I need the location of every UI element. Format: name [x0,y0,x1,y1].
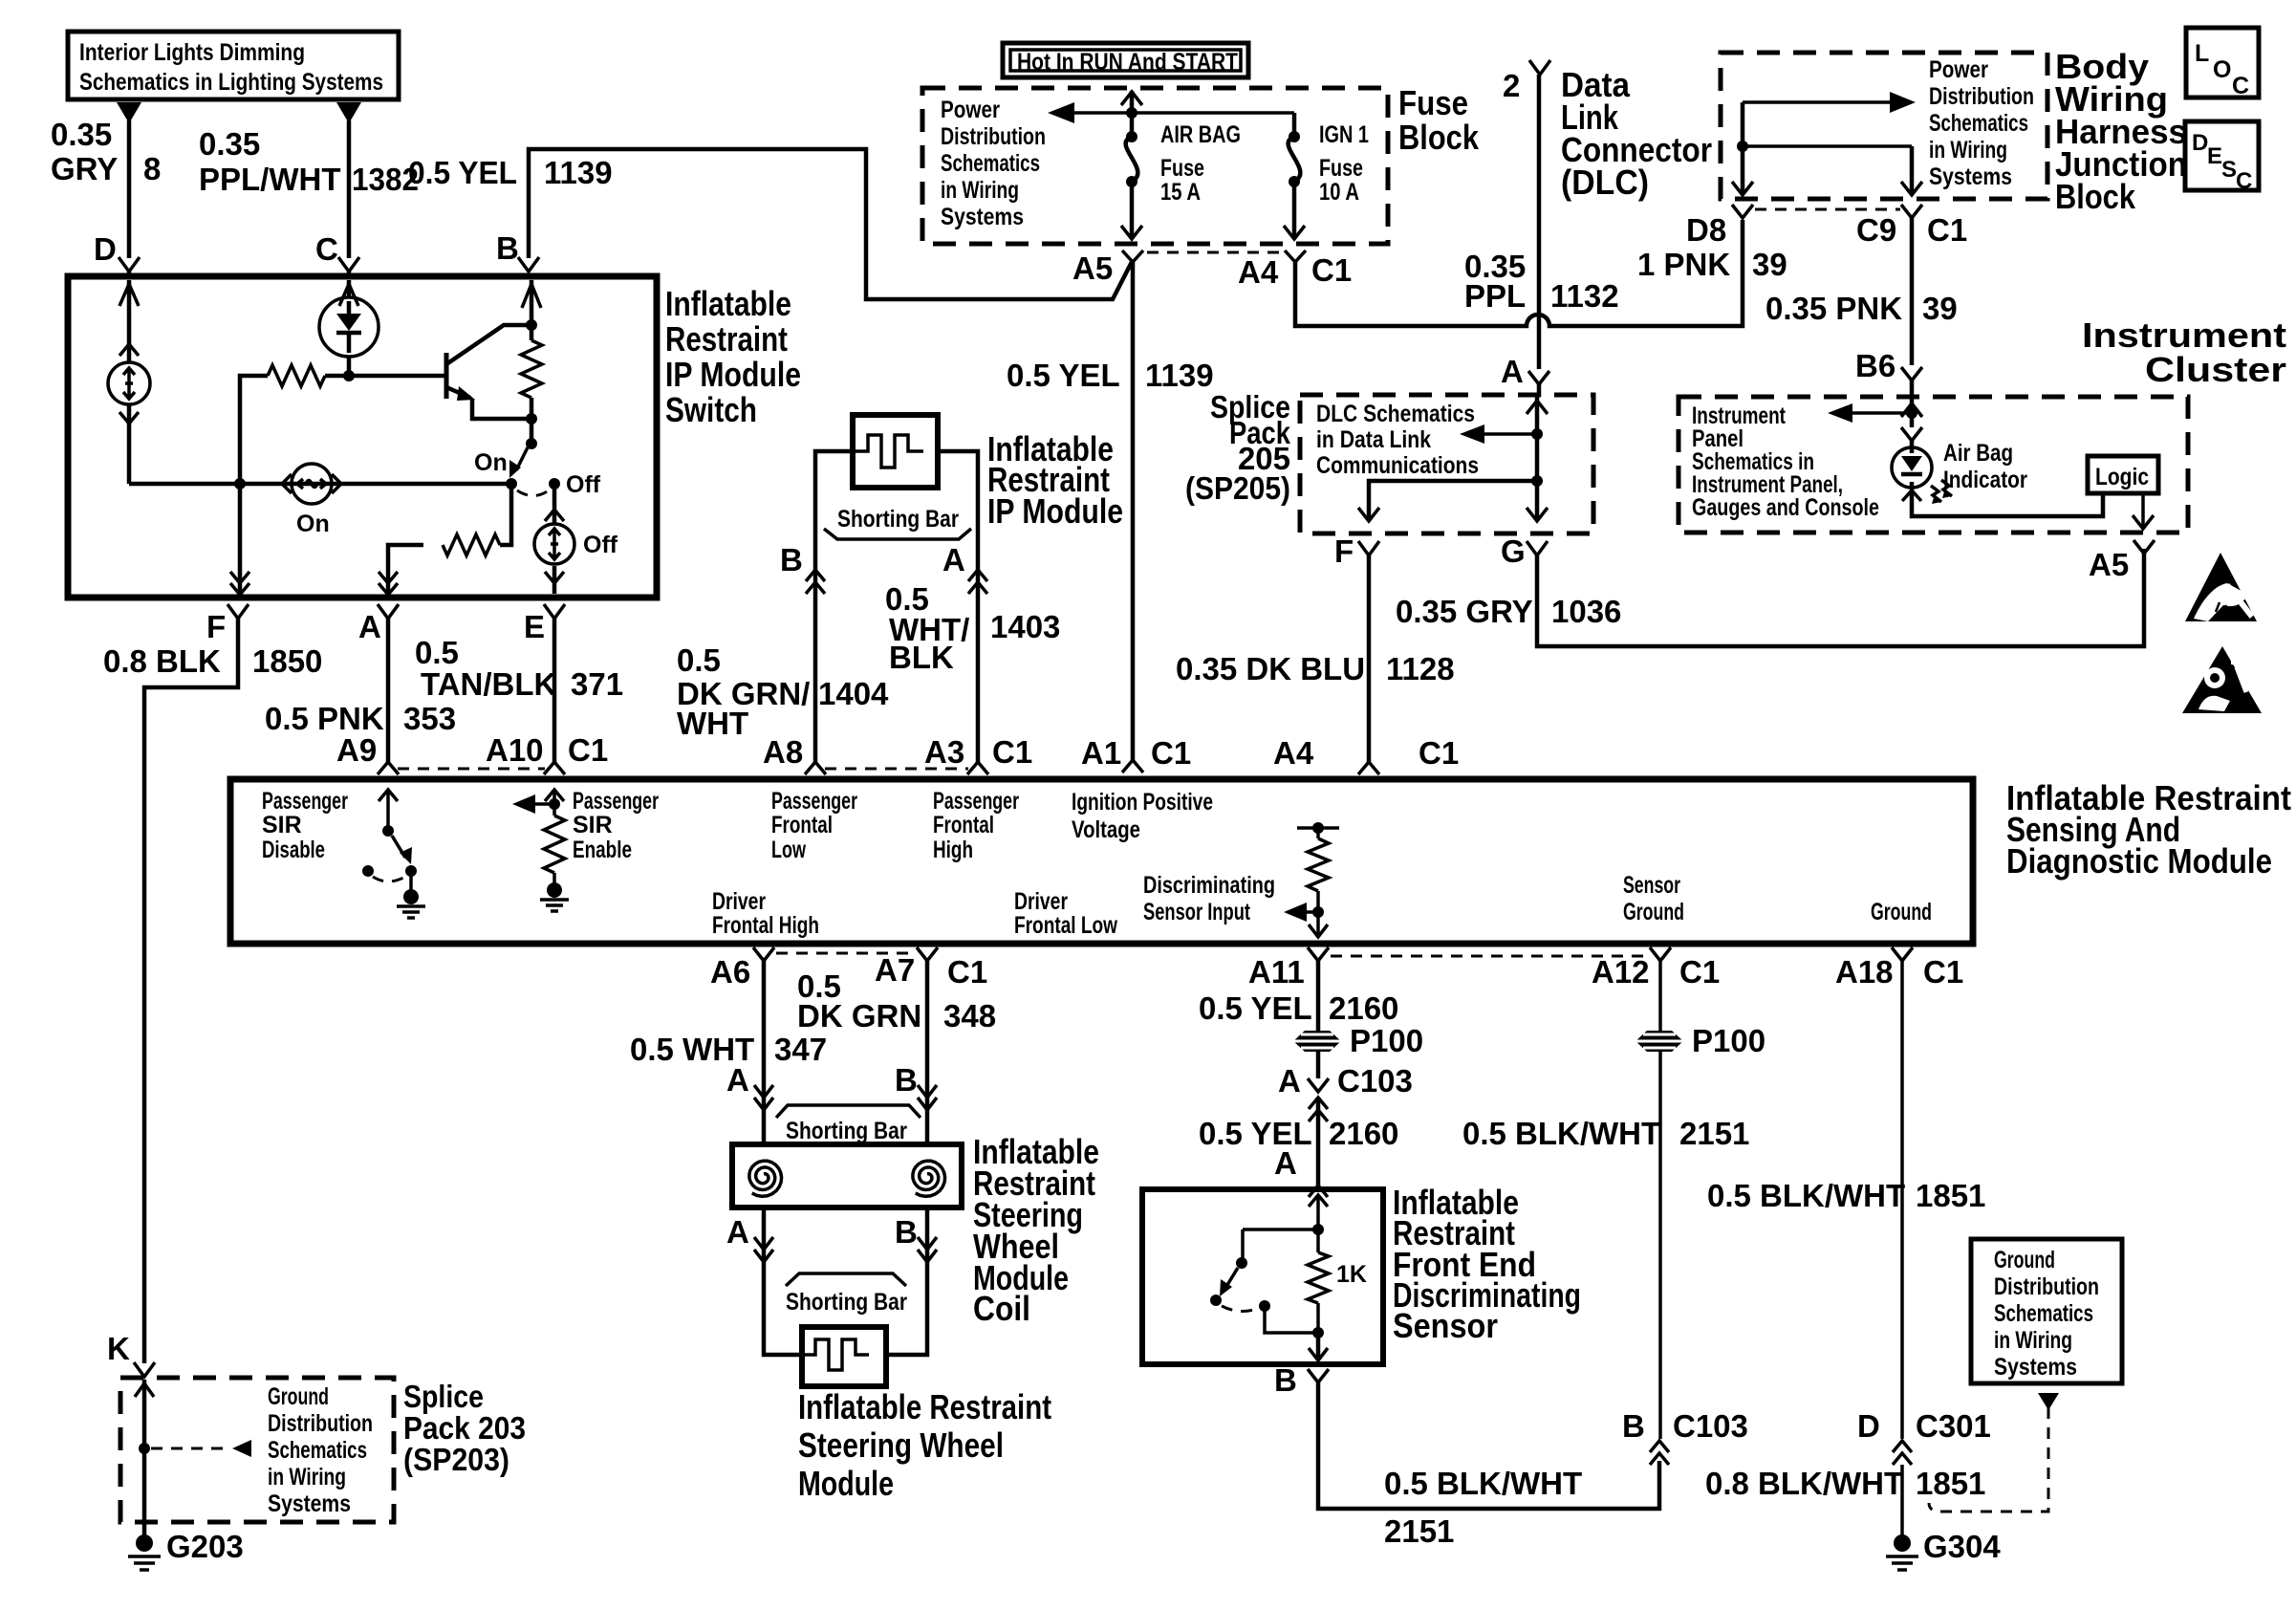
svg-text:C301: C301 [1916,1408,1991,1444]
node: Discriminating Sensor Input resistor [1143,822,1339,937]
svg-text:A7: A7 [875,952,915,988]
Fuse Block dashed box [922,83,1480,244]
node: Passenger SIR Disable switch [262,788,425,918]
reference box: Interior Lights Dimming Schematics in Lighting Systems [68,32,399,99]
svg-text:Power: Power [941,97,1000,123]
Inflatable Restraint Steering Wheel Module Coil box [732,1132,1099,1328]
svg-text:B: B [895,1214,918,1250]
sensor internals: switch and 1K resistor [1210,1195,1367,1360]
svg-text:SIR: SIR [573,812,613,838]
wire: switch common down to F terminal [230,484,249,595]
svg-text:0.8 BLK/WHT: 0.8 BLK/WHT [1705,1466,1903,1501]
svg-text:Inflatable: Inflatable [665,284,791,323]
svg-text:Hot In RUN And START: Hot In RUN And START [1017,49,1238,76]
svg-text:Pack 203: Pack 203 [403,1410,526,1446]
svg-text:Inflatable Restraint: Inflatable Restraint [798,1387,1051,1426]
Off contact and dashed throw [517,471,601,498]
ESD warning triangle (handling) [2185,553,2257,621]
svg-text:Shorting Bar: Shorting Bar [837,506,959,533]
node: Sensor Ground [1623,872,1684,925]
svg-text:Schematics: Schematics [1929,110,2028,137]
svg-text:1851: 1851 [1916,1178,1985,1213]
svg-text:15 A: 15 A [1160,179,1201,206]
svg-text:PPL: PPL [1464,278,1526,314]
svg-text:1851: 1851 [1916,1466,1985,1501]
wire: horizontal run to On contact [129,478,511,490]
dashed connector line A8-A3 [825,768,968,771]
svg-text:C1: C1 [1311,252,1352,288]
wire: IP module A lead to SDM A3 (0.5 WHT/BLK 1403) [885,451,1060,774]
svg-text:Ground: Ground [1623,899,1684,925]
svg-text:Low: Low [771,837,806,863]
svg-text:Distribution: Distribution [268,1410,373,1437]
svg-text:0.35: 0.35 [199,126,260,162]
LOC index box [2186,28,2259,99]
svg-text:A3: A3 [924,734,964,770]
svg-text:1K: 1K [1336,1261,1367,1288]
svg-text:Diagnostic Module: Diagnostic Module [2006,841,2272,881]
SIR warning triangle [2182,646,2262,713]
svg-text:Frontal Low: Frontal Low [1014,912,1117,939]
air bag indicator lamp [1892,440,2103,516]
svg-text:1403: 1403 [990,609,1060,644]
svg-text:DK GRN: DK GRN [797,998,921,1033]
svg-text:Interior Lights Dimming: Interior Lights Dimming [79,39,305,66]
svg-text:C1: C1 [1927,212,1967,248]
connector A6 below SDM [710,947,916,990]
svg-text:A: A [726,1214,749,1250]
wire: splice 205 internals [1358,397,1548,521]
svg-text:C1: C1 [1419,735,1459,771]
svg-text:Driver: Driver [712,888,766,915]
svg-text:D: D [94,231,117,267]
shorting bar (IP module) [824,506,971,539]
svg-text:C: C [2236,168,2252,194]
wire C (0.35 PPL/WHT 1382) from interior lights box to IP module switch [199,102,419,276]
svg-text:C103: C103 [1673,1408,1748,1444]
svg-text:C103: C103 [1337,1063,1413,1099]
Body Wiring Harness Junction Block dashed box [1721,47,2187,216]
connector E below switch (0.5 TAN/BLK 371) [415,604,623,774]
svg-text:Frontal: Frontal [933,812,994,838]
coil spiral A [749,1161,782,1196]
svg-text:Coil: Coil [973,1289,1030,1328]
dimmer symbol (circle) on D branch [108,362,150,484]
svg-text:Ground: Ground [268,1383,329,1410]
wire: 0.35 PPL 1132 from DLC down to splice pack 205 [1464,75,1619,397]
svg-text:Enable: Enable [573,837,632,863]
svg-text:39: 39 [1752,247,1787,282]
switch lever (On position) [474,419,537,490]
svg-text:A10: A10 [486,732,544,768]
svg-text:F: F [1334,533,1354,569]
svg-text:A: A [1278,1063,1301,1099]
shorting bar (coil upper) [776,1105,921,1144]
connector A5 of fuse block C1 [1072,250,1281,286]
svg-text:Off: Off [583,532,618,558]
svg-text:0.5 YEL: 0.5 YEL [408,155,517,190]
svg-text:0.35 DK BLU: 0.35 DK BLU [1176,651,1365,686]
grommet P100 (A11 wire) [1293,1023,1423,1058]
wire: ignition feed 0.5 YEL 1139 down to SDM A1 [1007,262,1214,772]
svg-text:C1: C1 [947,954,987,990]
svg-text:High: High [933,837,973,863]
svg-text:1128: 1128 [1386,651,1455,686]
reference box: Hot In RUN And START [1003,43,1248,77]
svg-text:Disable: Disable [262,837,325,863]
wire: junction block internals D8 feed [1732,92,1922,195]
svg-text:E: E [2207,143,2222,169]
svg-text:A: A [1274,1145,1297,1181]
svg-text:S: S [2221,157,2237,183]
svg-text:D: D [2192,130,2208,156]
svg-text:Ignition Positive: Ignition Positive [1072,789,1213,816]
svg-text:0.35 GRY: 0.35 GRY [1396,594,1533,629]
svg-text:348: 348 [943,998,996,1033]
connector A11 below SDM [1248,947,1648,990]
svg-text:Distribution: Distribution [1929,83,2034,110]
Inflatable Restraint Front End Discriminating Sensor box [1142,1183,1581,1364]
svg-text:E: E [524,609,545,644]
svg-text:A8: A8 [763,734,803,770]
Inflatable Restraint Steering Wheel Module box [798,1327,1051,1503]
node: Driver Frontal Low [1014,888,1117,939]
svg-text:Sensor: Sensor [1623,872,1680,899]
svg-text:A5: A5 [2089,547,2129,582]
wire: D branch inside switch [119,280,139,361]
node: Passenger Frontal High [933,788,1019,863]
svg-text:Module: Module [798,1464,894,1503]
connector C103 pin A [1199,1063,1413,1197]
svg-text:IP Module: IP Module [665,355,801,394]
Inflatable Restraint Sensing And Diagnostic Module box [230,778,2291,944]
svg-text:C9: C9 [1856,212,1896,248]
svg-text:0.5 YEL: 0.5 YEL [1199,990,1312,1026]
svg-text:2151: 2151 [1384,1513,1454,1549]
connector C301 pin D [1705,1408,1991,1501]
svg-text:Systems: Systems [941,204,1024,230]
svg-text:G: G [1501,533,1526,569]
svg-text:0.5 BLK/WHT: 0.5 BLK/WHT [1462,1116,1660,1151]
svg-text:Ground: Ground [1871,899,1932,925]
svg-text:0.5 PNK: 0.5 PNK [265,701,384,736]
svg-text:A4: A4 [1273,735,1314,771]
Inflatable Restraint IP Module Switch box [68,276,801,598]
wire: coil A lead down to steering wheel module [726,1207,802,1355]
svg-text:C1: C1 [1151,735,1191,771]
potentiometer symbol (On) on horizontal run [282,464,341,537]
connector A12 below SDM [1592,947,1720,990]
svg-text:39: 39 [1922,291,1958,326]
resistor R3 to A terminal [379,484,511,595]
svg-text:On: On [296,511,330,537]
wire B (0.5 YEL 1139) from IP module switch up and right to fuse A5 [408,149,1133,299]
svg-text:Shorting Bar: Shorting Bar [786,1289,907,1316]
svg-text:Systems: Systems [1929,163,2012,190]
dashed connector line A9-A10 [398,768,545,771]
svg-text:IP Module: IP Module [987,491,1123,531]
svg-text:in Wiring: in Wiring [1994,1327,2072,1354]
svg-text:Indicator: Indicator [1943,467,2027,493]
svg-text:GRY: GRY [51,151,118,186]
svg-text:P100: P100 [1350,1023,1423,1058]
wire: power feed arrow inside fuse block [1048,102,1294,123]
wire: IP module B lead to SDM A8 (0.5 DK GRN/WHT 1404) [677,451,889,774]
svg-text:1132: 1132 [1550,278,1619,314]
svg-text:Distribution: Distribution [1994,1273,2099,1300]
svg-text:Air Bag: Air Bag [1943,440,2013,467]
svg-text:Frontal: Frontal [771,812,833,838]
svg-text:(DLC): (DLC) [1561,163,1649,202]
svg-text:1850: 1850 [252,643,322,679]
svg-text:0.5 YEL: 0.5 YEL [1007,358,1120,393]
svg-text:A4: A4 [1238,254,1279,290]
grommet P100 (A12 wire) [1635,1023,1765,1058]
svg-text:Gauges and Console: Gauges and Console [1692,494,1879,521]
svg-text:C1: C1 [1923,954,1963,990]
svg-text:Off: Off [566,471,601,498]
node: Passenger Frontal Low [771,788,857,863]
svg-text:Fuse: Fuse [1319,155,1363,182]
svg-text:On: On [474,449,508,476]
wire: 0.5 BLK/WHT 1851 (A18 ground) [1707,961,1985,1439]
Instrument Cluster dashed box [1679,315,2286,533]
svg-text:WHT: WHT [677,706,748,741]
Splice Pack 205 dashed box [1185,389,1593,533]
svg-text:2: 2 [1503,68,1520,103]
svg-text:A: A [726,1062,749,1098]
node: Ignition Positive Voltage [1072,789,1213,843]
svg-text:A: A [1501,354,1524,389]
svg-text:A: A [358,609,381,644]
svg-text:0.5: 0.5 [415,635,459,670]
ground G304 [1886,1465,2001,1570]
node: Ground [1871,899,1932,925]
fuse IGN 1 10 A [1284,113,1369,239]
svg-text:2160: 2160 [1329,1116,1398,1151]
svg-text:0.35: 0.35 [51,117,112,152]
connector A7 below SDM [875,947,987,990]
svg-text:Systems: Systems [1994,1354,2077,1381]
svg-text:8: 8 [143,151,161,186]
svg-text:Power: Power [1929,56,1988,83]
svg-text:2151: 2151 [1679,1116,1749,1151]
svg-text:A11: A11 [1248,954,1305,990]
Inflatable Restraint IP Module box [853,415,1123,531]
Logic box [2088,456,2158,529]
svg-text:Schematics: Schematics [941,150,1040,177]
svg-text:347: 347 [774,1032,827,1067]
connector A4 of fuse block C1 [1238,250,1352,290]
svg-text:C1: C1 [992,734,1032,770]
Splice Pack 203 dashed box [120,1378,526,1522]
svg-text:D: D [1857,1408,1880,1444]
svg-text:AIR BAG: AIR BAG [1160,121,1241,148]
svg-text:1139: 1139 [1145,358,1214,393]
diode indicator circle on C branch [319,280,379,376]
svg-text:A18: A18 [1835,954,1894,990]
wire: 0.5 YEL 2160 (A11 to C103) [1199,961,1398,1078]
svg-text:1 PNK: 1 PNK [1637,247,1730,282]
svg-text:PPL/WHT: PPL/WHT [199,162,340,197]
wire: B branch inside switch and resistor R2 [521,280,542,424]
svg-text:L: L [2195,40,2209,67]
connector F below splice 205 (0.35 DK BLU 1128) [1176,533,1459,774]
svg-text:A12: A12 [1592,954,1650,990]
svg-text:Schematics: Schematics [268,1437,367,1464]
wire: splice 203 internals [135,1380,251,1535]
svg-text:TAN/BLK: TAN/BLK [421,666,557,702]
svg-text:1036: 1036 [1551,594,1621,629]
DESC index box [2185,121,2259,194]
svg-text:353: 353 [403,701,456,736]
transistor Q1 [446,325,531,419]
svg-text:Ground: Ground [1994,1247,2055,1273]
svg-text:Systems: Systems [268,1490,351,1517]
connector G below splice 205 (0.35 GRY 1036) [1396,533,2144,646]
svg-text:1139: 1139 [544,155,613,190]
svg-text:Instrument: Instrument [2082,315,2286,355]
svg-text:B: B [1622,1408,1645,1444]
svg-text:Communications: Communications [1316,452,1479,479]
svg-text:in Wiring: in Wiring [1929,137,2007,163]
connector B below sensor and 0.5 BLK/WHT 2151 run [1274,1362,1659,1549]
svg-text:G203: G203 [166,1529,244,1564]
svg-text:B: B [780,542,803,577]
svg-text:Passenger: Passenger [771,788,857,815]
svg-text:Steering Wheel: Steering Wheel [798,1425,1004,1465]
svg-text:Block: Block [2055,177,2136,216]
wire: 1 PNK 39 from fuse A4 to junction block D8 (hop over DLC wire) [1295,220,1787,326]
svg-text:C1: C1 [1679,954,1720,990]
svg-text:K: K [107,1331,130,1366]
ground G203 [128,1529,244,1570]
coil spiral B [913,1161,945,1196]
svg-text:B: B [496,230,519,266]
svg-text:Sensor Input: Sensor Input [1143,899,1250,925]
svg-text:in Wiring: in Wiring [941,177,1019,204]
svg-text:IGN 1: IGN 1 [1319,121,1369,148]
svg-text:C1: C1 [568,732,608,768]
connector F below switch (0.8 BLK 1850) [103,604,322,1377]
connector A18 below SDM [1835,947,1963,990]
wire D (0.35 GRY 8) from interior lights box to IP module switch [51,102,161,276]
svg-text:A: A [942,542,965,577]
svg-text:A5: A5 [1072,250,1113,286]
svg-text:B: B [895,1062,918,1098]
svg-text:Passenger: Passenger [933,788,1019,815]
wire: coil B lead down to steering wheel module [886,1207,937,1355]
svg-text:0.5: 0.5 [677,642,721,678]
svg-text:Passenger: Passenger [573,788,659,815]
svg-text:B: B [1274,1362,1297,1398]
svg-text:C: C [2232,73,2249,99]
svg-text:Discriminating: Discriminating [1143,872,1275,899]
svg-text:Passenger: Passenger [262,788,348,815]
Off branch lamp symbol down to E terminal [534,484,618,594]
svg-text:Fuse: Fuse [1160,155,1204,182]
wire: 0.5 DK GRN 348 (A7 to coil B) [797,961,996,1144]
svg-text:Cluster: Cluster [2145,350,2286,389]
svg-text:Restraint: Restraint [665,319,788,359]
junction node [234,478,246,490]
shorting bar (steering wheel module) [786,1273,907,1316]
svg-text:Distribution: Distribution [941,123,1046,150]
resistor R1 (base resistor) [240,365,445,484]
svg-text:(SP203): (SP203) [403,1442,509,1477]
svg-text:Frontal High: Frontal High [712,912,819,939]
wire: 0.5 WHT 347 (A6 to coil A) [630,961,827,1144]
svg-text:SIR: SIR [262,812,302,838]
svg-text:371: 371 [571,666,623,702]
connector A5 of instrument cluster [2089,540,2155,582]
svg-text:Switch: Switch [665,390,757,429]
Data Link Connector (DLC) pin 2 [1503,60,1712,202]
svg-text:BLK: BLK [889,640,954,675]
svg-text:10 A: 10 A [1319,179,1359,206]
wire: B6 feed inside cluster [1828,400,1922,441]
connector C103 pin B [1622,1408,1748,1465]
svg-text:F: F [206,609,226,644]
node: Passenger SIR Enable resistor [512,788,659,911]
svg-text:Fuse: Fuse [1398,83,1468,122]
svg-text:G304: G304 [1923,1529,2001,1564]
svg-text:Schematics: Schematics [1994,1300,2093,1327]
svg-text:Sensor: Sensor [1393,1306,1498,1345]
wire: 0.5 BLK/WHT 2151 (A12 sensor ground) [1462,961,1749,1439]
svg-text:B6: B6 [1855,348,1895,383]
svg-text:DLC Schematics: DLC Schematics [1316,401,1475,427]
node: Driver Frontal High [712,888,819,939]
svg-text:Shorting Bar: Shorting Bar [786,1118,907,1144]
svg-text:A9: A9 [336,732,377,768]
svg-text:Block: Block [1398,118,1480,157]
svg-text:(SP205): (SP205) [1185,470,1290,506]
connector D8 / C9 of junction block C1 [1686,205,1967,248]
svg-text:A6: A6 [710,954,750,990]
svg-text:Driver: Driver [1014,888,1068,915]
svg-text:0.35 PNK: 0.35 PNK [1765,291,1902,326]
svg-text:Logic: Logic [2095,464,2149,490]
svg-text:in Data Link: in Data Link [1316,426,1431,453]
svg-text:in Wiring: in Wiring [268,1464,346,1490]
svg-text:Voltage: Voltage [1072,816,1140,843]
wire: 0.35 PNK 39 from C9 down to instrument cluster B6 [1765,218,1958,400]
svg-text:A1: A1 [1081,735,1121,771]
svg-text:1404: 1404 [818,676,889,711]
svg-text:O: O [2213,56,2231,83]
Ground Distribution Schematics reference box (right) [1929,1239,2122,1512]
connector A below switch (0.5 PNK 353) [265,604,456,774]
svg-text:C: C [315,231,338,267]
svg-text:D8: D8 [1686,212,1726,248]
svg-text:2160: 2160 [1329,990,1398,1026]
svg-text:0.5 BLK/WHT: 0.5 BLK/WHT [1384,1466,1582,1501]
svg-text:0.5 BLK/WHT: 0.5 BLK/WHT [1707,1178,1905,1213]
svg-text:0.8 BLK: 0.8 BLK [103,643,221,679]
svg-text:Splice: Splice [403,1379,484,1414]
svg-text:P100: P100 [1692,1023,1765,1058]
fuse AIR BAG 15 A [1121,91,1241,239]
svg-text:Schematics in Lighting Systems: Schematics in Lighting Systems [79,69,383,96]
